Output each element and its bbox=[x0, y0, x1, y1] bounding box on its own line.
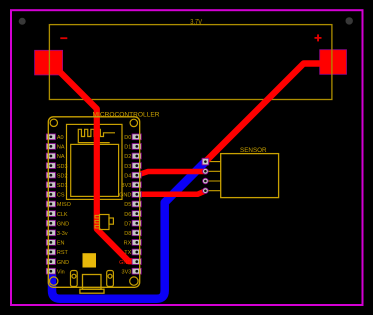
svg-text:CS: CS bbox=[57, 192, 65, 198]
svg-text:TX: TX bbox=[124, 250, 131, 256]
svg-text:RX: RX bbox=[124, 240, 132, 246]
svg-text:D7: D7 bbox=[124, 221, 131, 227]
svg-text:D5: D5 bbox=[124, 202, 131, 208]
svg-text:GND: GND bbox=[57, 221, 69, 227]
svg-text:MICROCONTROLLER: MICROCONTROLLER bbox=[93, 112, 160, 119]
svg-text:NA: NA bbox=[57, 144, 65, 150]
svg-text:RST: RST bbox=[57, 250, 69, 256]
svg-text:A0: A0 bbox=[57, 135, 64, 141]
svg-text:D6: D6 bbox=[124, 212, 131, 218]
svg-text:SD2: SD2 bbox=[57, 173, 68, 179]
svg-text:D3: D3 bbox=[124, 164, 131, 170]
svg-text:MISO: MISO bbox=[57, 202, 72, 208]
svg-text:3.7V: 3.7V bbox=[190, 18, 202, 26]
svg-text:D4: D4 bbox=[124, 173, 131, 179]
svg-text:SENSOR: SENSOR bbox=[240, 147, 267, 154]
svg-text:D0: D0 bbox=[124, 135, 131, 141]
svg-text:D8: D8 bbox=[124, 231, 131, 237]
svg-text:EN: EN bbox=[57, 240, 65, 246]
svg-text:D1: D1 bbox=[124, 144, 131, 150]
svg-text:GND: GND bbox=[57, 260, 69, 266]
svg-text:SD1: SD1 bbox=[57, 183, 68, 189]
svg-text:Vin: Vin bbox=[57, 269, 65, 275]
svg-text:D2: D2 bbox=[124, 154, 131, 160]
svg-text:3-3v: 3-3v bbox=[57, 231, 68, 237]
svg-text:GND: GND bbox=[119, 260, 131, 266]
svg-text:3V3: 3V3 bbox=[122, 183, 132, 189]
svg-text:NA: NA bbox=[57, 154, 65, 160]
svg-text:3V3: 3V3 bbox=[122, 269, 132, 275]
svg-text:CLK: CLK bbox=[57, 212, 68, 218]
svg-text:GND: GND bbox=[119, 192, 131, 198]
svg-text:SD3: SD3 bbox=[57, 164, 68, 170]
